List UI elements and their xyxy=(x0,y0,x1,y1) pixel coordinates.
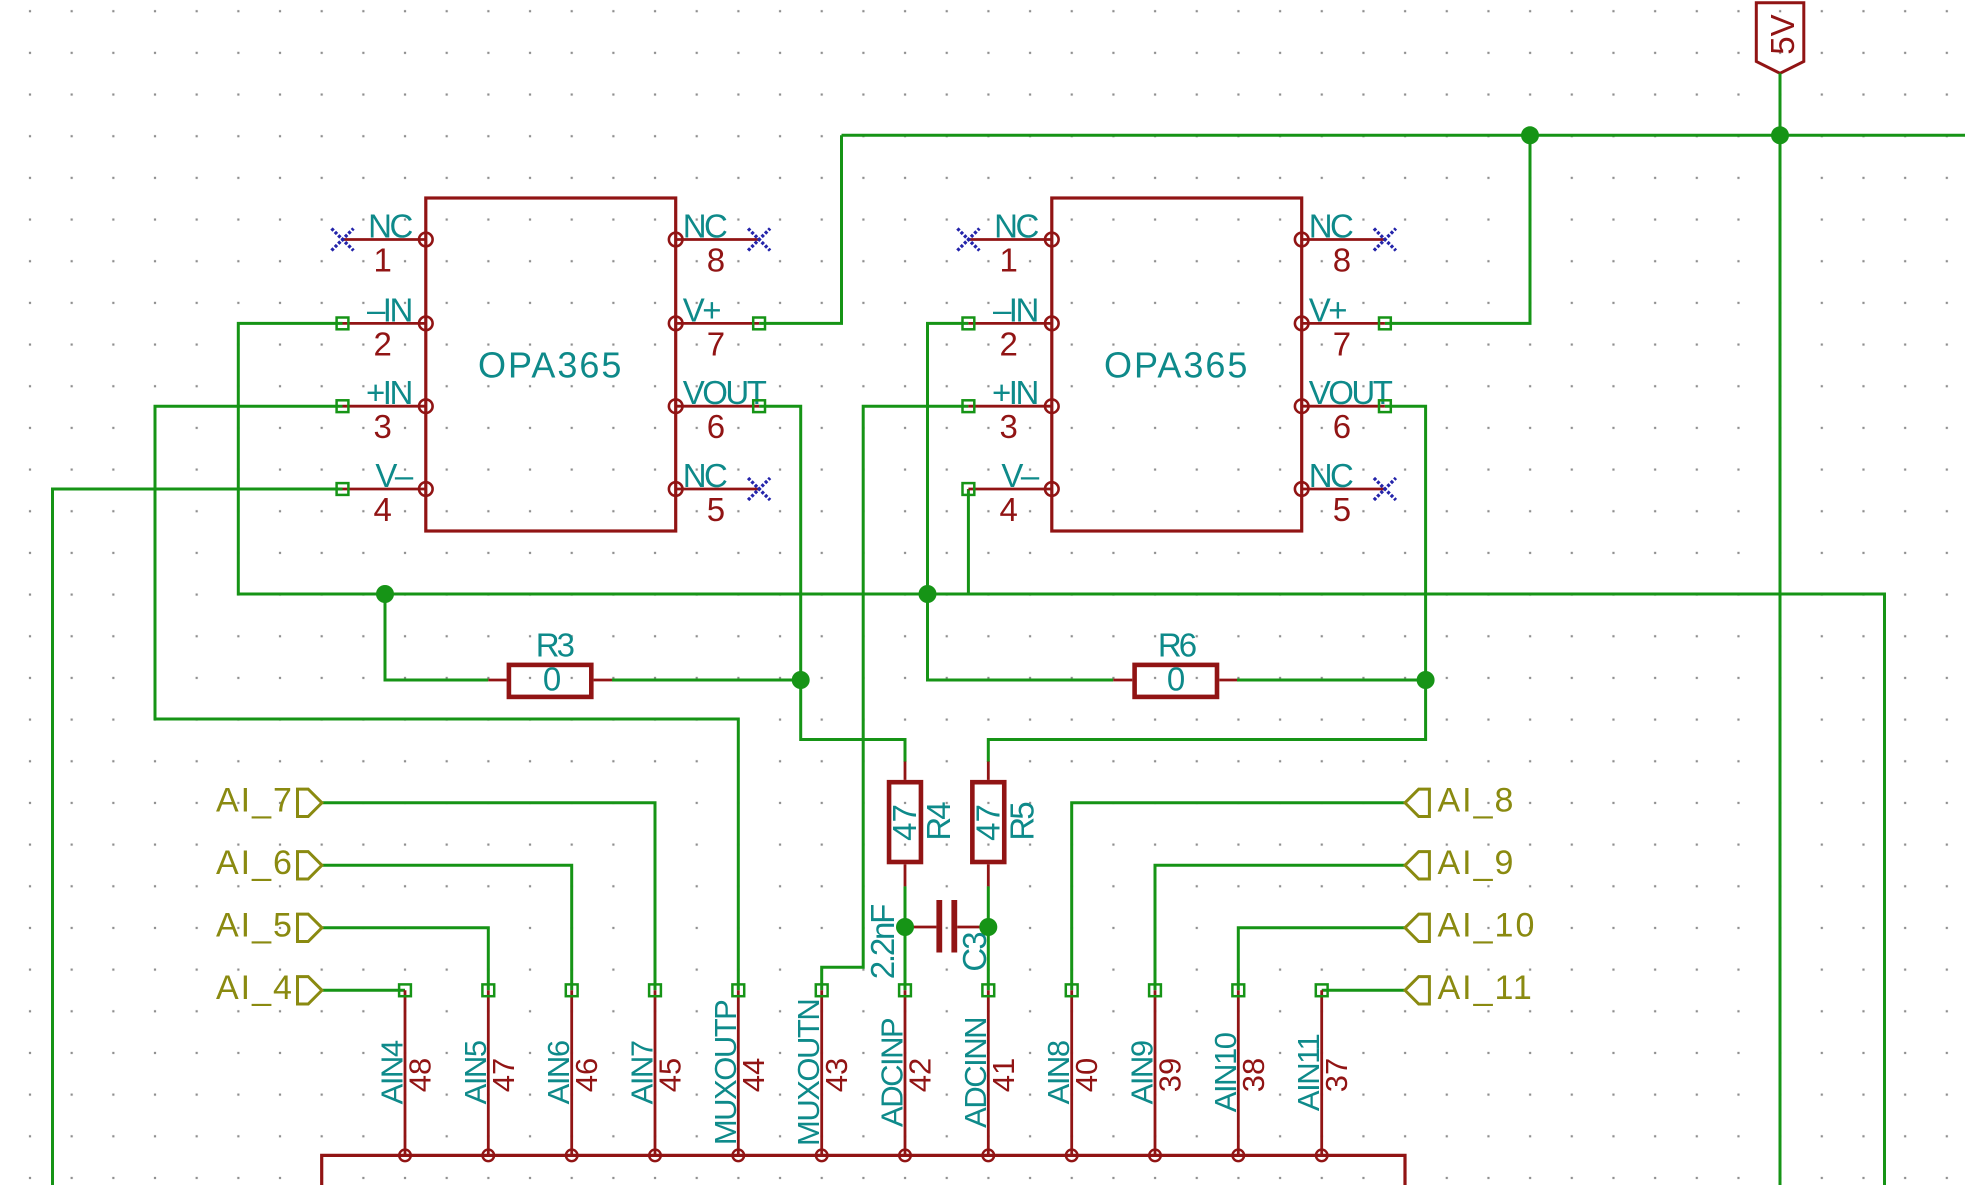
svg-text:NC: NC xyxy=(1309,457,1353,494)
wire AI_9 to AIN9 xyxy=(1155,865,1405,990)
svg-text:47: 47 xyxy=(486,1058,521,1092)
wire-end square AIN6 xyxy=(566,984,578,996)
resistor R6 value 0 xyxy=(1113,627,1237,698)
wire U1 V+ to rail xyxy=(759,135,841,323)
svg-text:1: 1 xyxy=(373,242,391,279)
svg-text:+IN: +IN xyxy=(992,374,1037,411)
svg-text:OPA365: OPA365 xyxy=(478,345,623,386)
wire-end square opamp 4 xyxy=(753,318,765,330)
no-connect U1 pin1 xyxy=(332,229,354,251)
svg-text:2: 2 xyxy=(999,325,1017,362)
svg-text:AI_8: AI_8 xyxy=(1438,782,1516,820)
svg-text:6: 6 xyxy=(707,408,725,445)
wire-end square opamp 5 xyxy=(753,400,765,412)
svg-text:AI_10: AI_10 xyxy=(1438,907,1537,945)
wire AI_5 to AIN5 xyxy=(322,928,489,991)
svg-text:NC: NC xyxy=(994,208,1038,245)
IC pin 46 AIN6 xyxy=(541,990,604,1161)
svg-text:–IN: –IN xyxy=(367,291,412,328)
svg-text:5V: 5V xyxy=(1764,14,1801,54)
hierarchical label AI_4 xyxy=(216,969,322,1007)
svg-text:7: 7 xyxy=(1333,325,1351,362)
svg-text:V+: V+ xyxy=(683,291,721,328)
wire-end square AIN9 xyxy=(1149,984,1161,996)
wire-end square AIN11 xyxy=(1316,984,1328,996)
junction -IN2/bus xyxy=(919,585,937,603)
junction C3 left xyxy=(896,918,914,936)
svg-text:7: 7 xyxy=(707,325,725,362)
wire-end square AIN4 xyxy=(399,984,411,996)
svg-text:AI_4: AI_4 xyxy=(216,969,294,1007)
wire AI_10 to AIN10 xyxy=(1238,928,1405,991)
svg-text:V–: V– xyxy=(1001,457,1040,494)
junction rail/U2V+ xyxy=(1521,126,1539,144)
wire AI_11 to AIN11 xyxy=(1322,989,1405,992)
svg-text:NC: NC xyxy=(368,208,412,245)
svg-text:3: 3 xyxy=(999,408,1017,445)
svg-text:NC: NC xyxy=(683,208,727,245)
U2 pin names and numbers xyxy=(992,208,1393,529)
svg-text:6: 6 xyxy=(1333,408,1351,445)
wire R4 bottom to ADCINP xyxy=(904,886,907,990)
svg-text:8: 8 xyxy=(707,242,725,279)
svg-text:C3: C3 xyxy=(956,933,993,972)
svg-text:3: 3 xyxy=(373,408,391,445)
wire V-1 down xyxy=(53,489,343,1185)
junction rail/5V xyxy=(1771,126,1789,144)
svg-text:5: 5 xyxy=(1333,491,1351,528)
wire AI_6 to AIN6 xyxy=(322,865,572,990)
svg-text:4: 4 xyxy=(373,491,391,528)
no-connect U1 pin8 xyxy=(748,229,770,251)
hierarchical label AI_7 xyxy=(216,782,322,820)
wire-end square MUXOUTP xyxy=(732,984,744,996)
hierarchical label AI_11 xyxy=(1405,969,1534,1007)
IC pin 37 AIN11 xyxy=(1291,990,1354,1161)
wire +IN2 to MUXOUTN xyxy=(822,406,969,990)
svg-text:42: 42 xyxy=(903,1058,938,1092)
wire-end square opamp 8 xyxy=(963,483,975,495)
svg-text:R5: R5 xyxy=(1003,803,1040,841)
svg-text:AI_7: AI_7 xyxy=(216,782,294,820)
wire net -IN2 to R6 left xyxy=(928,323,1114,680)
svg-text:45: 45 xyxy=(653,1058,688,1092)
wire AI_8 to AIN8 xyxy=(1072,803,1405,991)
U1 pin names and numbers xyxy=(366,208,767,529)
op-amp U2 OPA365 xyxy=(968,198,1385,531)
svg-text:48: 48 xyxy=(403,1058,438,1092)
wire R3 right to VOUT1 net xyxy=(612,679,801,682)
wire R6 right to VOUT2 net xyxy=(1237,679,1426,682)
wire net -IN1 from pin to bus xyxy=(238,323,1884,1185)
hierarchical label AI_5 xyxy=(216,907,322,945)
svg-text:40: 40 xyxy=(1069,1058,1104,1092)
svg-text:5: 5 xyxy=(707,491,725,528)
svg-text:NC: NC xyxy=(1309,208,1353,245)
wire-end square opamp 6 xyxy=(963,318,975,330)
IC pin 38 AIN10 xyxy=(1208,990,1271,1161)
svg-text:1: 1 xyxy=(999,242,1017,279)
capacitor C3 value 2.2nF xyxy=(864,900,993,979)
svg-text:4: 4 xyxy=(999,491,1017,528)
wire-end square AIN5 xyxy=(482,984,494,996)
IC pin 45 AIN7 xyxy=(625,990,688,1161)
IC pin 44 MUXOUTP xyxy=(708,990,771,1161)
svg-text:AI_9: AI_9 xyxy=(1438,844,1516,882)
op-amp U1 OPA365 xyxy=(343,198,760,531)
svg-text:NC: NC xyxy=(683,457,727,494)
wire-end square AIN8 xyxy=(1066,984,1078,996)
svg-text:47: 47 xyxy=(969,804,1006,841)
IC pin 47 AIN5 xyxy=(458,990,521,1161)
wire U2 V+ to rail xyxy=(1385,135,1530,323)
svg-text:R4: R4 xyxy=(920,802,957,841)
IC U3 body (partial) xyxy=(322,1155,1405,1185)
wire R5 bottom to ADCINN xyxy=(987,886,990,990)
svg-text:–IN: –IN xyxy=(993,291,1038,328)
svg-text:R3: R3 xyxy=(536,627,574,664)
wire 5V vertical rail xyxy=(1779,73,1782,1185)
svg-text:V–: V– xyxy=(375,457,414,494)
no-connect U2 pin1 xyxy=(957,229,979,251)
svg-text:37: 37 xyxy=(1319,1058,1354,1092)
svg-text:R6: R6 xyxy=(1158,627,1196,664)
svg-text:V+: V+ xyxy=(1309,291,1347,328)
wire-end square opamp 10 xyxy=(1379,400,1391,412)
IC pin 48 AIN4 xyxy=(375,990,438,1161)
hierarchical label AI_9 xyxy=(1405,844,1515,882)
svg-text:OPA365: OPA365 xyxy=(1104,345,1249,386)
svg-text:47: 47 xyxy=(886,804,923,841)
resistor R5 value 47 xyxy=(969,762,1040,887)
resistor R4 value 47 xyxy=(886,762,957,887)
svg-text:2.2nF: 2.2nF xyxy=(864,905,901,979)
junction R6/VOUT2 xyxy=(1417,671,1435,689)
wire-end square opamp 1 xyxy=(337,318,349,330)
hierarchical label AI_6 xyxy=(216,844,322,882)
wire-end square AIN7 xyxy=(649,984,661,996)
wire VOUT2 to R5 xyxy=(988,406,1425,762)
svg-text:39: 39 xyxy=(1153,1058,1188,1092)
no-connect U2 pin5 xyxy=(1374,478,1396,500)
IC pin 43 MUXOUTN xyxy=(791,990,854,1161)
power symbol 5V xyxy=(1756,3,1804,74)
wire-end square AIN10 xyxy=(1232,984,1244,996)
svg-text:AI_5: AI_5 xyxy=(216,907,294,945)
wire-end square ADCINP xyxy=(899,984,911,996)
svg-text:+IN: +IN xyxy=(366,374,411,411)
svg-text:8: 8 xyxy=(1333,242,1351,279)
hierarchical label AI_10 xyxy=(1405,907,1536,945)
IC pin 40 AIN8 xyxy=(1041,990,1104,1161)
wire-end square opamp 7 xyxy=(963,400,975,412)
wire stub to R3 left xyxy=(385,594,488,680)
svg-text:41: 41 xyxy=(986,1058,1021,1092)
wire-end square MUXOUTN xyxy=(816,984,828,996)
wire +IN1 to MUXOUTP xyxy=(155,406,738,990)
junction C3 right xyxy=(979,918,997,936)
wire-end square ADCINN xyxy=(982,984,994,996)
svg-text:43: 43 xyxy=(819,1058,854,1092)
junction R3/VOUT1 xyxy=(792,671,810,689)
wire 5V horizontal rail xyxy=(842,134,1965,137)
IC pin 42 ADCINP xyxy=(875,990,938,1161)
wire-end square opamp 2 xyxy=(337,400,349,412)
svg-text:AI_6: AI_6 xyxy=(216,844,294,882)
no-connect U1 pin5 xyxy=(748,478,770,500)
svg-text:44: 44 xyxy=(736,1058,771,1092)
wire AI_4 to AIN4 xyxy=(322,989,405,992)
wire VOUT1 to R4 xyxy=(759,406,905,762)
junction -IN1/R3 xyxy=(376,585,394,603)
no-connect U2 pin8 xyxy=(1374,229,1396,251)
wire-end square opamp 3 xyxy=(337,483,349,495)
wire V-2 to bus xyxy=(967,489,970,594)
resistor R3 value 0 xyxy=(488,627,612,698)
wire-end square opamp 9 xyxy=(1379,318,1391,330)
svg-text:2: 2 xyxy=(373,325,391,362)
IC pin 41 ADCINN xyxy=(958,990,1021,1161)
svg-text:0: 0 xyxy=(1167,661,1185,698)
wire AI_7 to AIN7 xyxy=(322,803,655,991)
svg-text:0: 0 xyxy=(543,661,561,698)
hierarchical label AI_8 xyxy=(1405,782,1515,820)
svg-text:38: 38 xyxy=(1236,1058,1271,1092)
svg-text:AI_11: AI_11 xyxy=(1438,969,1534,1007)
svg-text:46: 46 xyxy=(569,1058,604,1092)
IC pin 39 AIN9 xyxy=(1125,990,1188,1161)
